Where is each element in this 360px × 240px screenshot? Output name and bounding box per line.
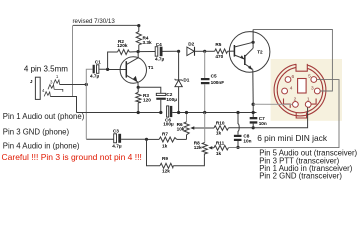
svg-text:R7: R7 — [162, 132, 168, 137]
node C5 top — [203, 50, 206, 53]
svg-text:R9: R9 — [162, 156, 168, 161]
svg-text:Pin 3 GND (phone): Pin 3 GND (phone) — [3, 127, 70, 136]
svg-text:100nF: 100nF — [211, 80, 225, 85]
svg-text:6 pin mini DIN jack: 6 pin mini DIN jack — [257, 133, 328, 143]
panel cream background — [271, 59, 342, 121]
node D1 top — [177, 50, 180, 53]
svg-text:Pin 1 Audio out (phone): Pin 1 Audio out (phone) — [3, 112, 85, 121]
svg-text:C5: C5 — [211, 74, 217, 79]
svg-text:1k: 1k — [216, 131, 222, 136]
node top rail right corner — [137, 24, 140, 27]
wire node A up to C1 — [86, 69, 92, 84]
wire T1 emitter — [137, 82, 139, 87]
node emitter pin2 branch — [252, 103, 255, 106]
svg-text:Careful !!! Pin 3 is ground no: Careful !!! Pin 3 is ground not pin 4 !!… — [2, 152, 142, 162]
svg-text:4.7µ: 4.7µ — [155, 56, 165, 61]
svg-text:120: 120 — [143, 97, 151, 102]
node rail C8 branch — [236, 111, 239, 114]
wire top supply rail — [73, 24, 139, 26]
wire jack pin4 to ground corner — [50, 97, 76, 113]
DIN pin 5 — [311, 77, 317, 83]
wire T2 emitter down — [252, 70, 254, 105]
node rail C2 — [159, 111, 162, 114]
node rail D1 — [177, 111, 180, 114]
wire T1 emitter to C2 — [138, 87, 161, 93]
DIN pin 2 — [293, 102, 299, 108]
svg-text:10n: 10n — [259, 121, 267, 126]
svg-text:100µ: 100µ — [163, 121, 174, 126]
DIN right key notch — [309, 99, 316, 108]
wire C8 drop with hop — [238, 113, 239, 135]
wire jack pin1 to node A — [60, 84, 87, 86]
wire ground rail right — [172, 112, 256, 114]
svg-text:1k: 1k — [216, 151, 222, 156]
wire R6 wiper from R10 — [194, 127, 215, 129]
svg-text:3.3k: 3.3k — [143, 40, 153, 45]
svg-text:12k: 12k — [162, 169, 170, 174]
node C7 bottom audio line — [252, 126, 255, 129]
wire emitter to DIN pin2 — [253, 103, 292, 105]
svg-text:100µ: 100µ — [166, 97, 177, 102]
svg-text:120k: 120k — [117, 43, 128, 48]
svg-text:12k: 12k — [194, 145, 202, 150]
svg-text:R5: R5 — [215, 42, 221, 47]
wire emitter to rail — [252, 104, 254, 117]
DIN bottom notch — [296, 113, 306, 118]
svg-text:R10: R10 — [216, 121, 225, 126]
wire supply rail left vertical — [72, 25, 74, 96]
svg-text:T1: T1 — [148, 65, 154, 70]
svg-text:6: 6 — [292, 74, 295, 80]
svg-text:C3: C3 — [113, 129, 119, 134]
node rail R3 — [137, 111, 140, 114]
svg-text:4: 4 — [290, 86, 293, 92]
svg-text:4.7µ: 4.7µ — [112, 143, 122, 148]
wire audio line to DIN pin1 — [228, 107, 307, 127]
DIN left key notch — [284, 99, 291, 108]
svg-text:4 pin 3.5mm: 4 pin 3.5mm — [24, 65, 68, 74]
svg-text:5: 5 — [308, 74, 311, 80]
svg-text:3: 3 — [311, 86, 314, 92]
svg-text:Pin 2 GND (transceiver): Pin 2 GND (transceiver) — [259, 172, 342, 181]
svg-text:1: 1 — [307, 97, 310, 103]
wire jack pin3 stub — [54, 89, 63, 91]
svg-text:10n: 10n — [243, 138, 251, 143]
svg-text:2: 2 — [294, 97, 297, 103]
node T1 collector — [137, 50, 140, 53]
svg-text:revised 7/30/13: revised 7/30/13 — [73, 18, 116, 25]
node base of T1 — [106, 68, 109, 71]
wire PTT line from DIN pin5 — [228, 80, 339, 148]
DIN pin 3 — [314, 88, 320, 94]
svg-text:4.7µ: 4.7µ — [90, 73, 100, 78]
node T1 emitter — [137, 86, 140, 89]
wire ground rail left — [77, 112, 163, 114]
DIN pin 4 — [282, 88, 288, 94]
DIN center key — [298, 79, 307, 94]
wire top to DIN pin3 PTT — [253, 30, 332, 92]
svg-text:D2: D2 — [188, 42, 194, 47]
wire T2 collector to top — [252, 30, 254, 49]
DIN pin 1 — [305, 102, 311, 108]
node C8 bottom PTT line — [236, 146, 239, 149]
svg-text:C1: C1 — [95, 60, 101, 65]
node rail C7 — [252, 111, 255, 114]
svg-text:1k: 1k — [162, 144, 168, 149]
svg-text:T2: T2 — [257, 49, 263, 54]
node rail C5 R8 — [203, 111, 206, 114]
DIN top notch — [296, 62, 307, 71]
node C3 R7 R9 — [145, 138, 148, 141]
node T2 collector junction — [252, 41, 255, 44]
wire C1 to base node — [99, 68, 126, 70]
DIN pin 6 — [285, 77, 291, 83]
svg-text:J: J — [30, 79, 33, 84]
svg-text:D1: D1 — [183, 78, 189, 83]
svg-text:Pin 4 Audio in (phone): Pin 4 Audio in (phone) — [3, 141, 80, 150]
wire node A down to C3 — [85, 85, 87, 139]
wire R8 wiper from R11 — [212, 147, 215, 149]
node A pin1 junction — [85, 83, 88, 86]
svg-text:C4: C4 — [156, 42, 162, 47]
connector 6-pin mini DIN jack — [274, 62, 326, 118]
